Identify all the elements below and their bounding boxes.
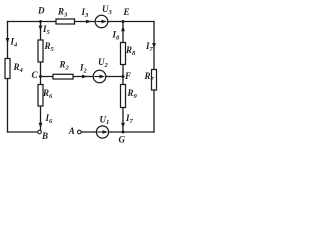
node G xyxy=(122,131,125,134)
node C xyxy=(39,75,42,78)
svg-text:I7: I7 xyxy=(145,41,154,53)
arrow of U2 xyxy=(94,75,105,79)
wire bottom A-U1-G rail xyxy=(81,131,154,133)
svg-text:I3: I3 xyxy=(81,7,90,19)
svg-text:R5: R5 xyxy=(44,41,55,53)
svg-text:I7: I7 xyxy=(125,113,134,125)
current arrow I5 xyxy=(39,26,43,32)
wire bottom-left to B xyxy=(8,131,38,133)
resistor R5 xyxy=(38,40,43,62)
svg-text:I5: I5 xyxy=(42,24,51,36)
svg-text:R9: R9 xyxy=(127,88,138,100)
current arrow I7 right xyxy=(152,43,156,49)
svg-text:R4: R4 xyxy=(13,62,24,74)
svg-text:I8: I8 xyxy=(112,30,121,42)
svg-text:U2: U2 xyxy=(98,57,109,69)
terminal A xyxy=(78,130,82,134)
source U1 xyxy=(96,126,108,138)
node E xyxy=(122,20,125,23)
svg-text:B: B xyxy=(41,131,48,141)
svg-text:I4: I4 xyxy=(10,37,19,49)
svg-text:I2: I2 xyxy=(79,63,88,75)
svg-text:R8: R8 xyxy=(125,45,136,57)
current arrow I8 xyxy=(121,26,125,32)
arrow of U3 xyxy=(96,20,107,24)
wire middle column D-C-B xyxy=(40,22,42,131)
resistor R6 xyxy=(38,85,43,107)
svg-text:F: F xyxy=(124,71,131,81)
wire right column E-F-G xyxy=(122,22,124,133)
wire left branch xyxy=(7,22,9,133)
source U3 xyxy=(95,15,108,28)
svg-text:G: G xyxy=(119,135,126,145)
node F xyxy=(122,75,125,78)
resistor R3 xyxy=(56,19,75,24)
arrow of U1 xyxy=(97,130,108,134)
resistor R4 xyxy=(5,59,10,79)
resistor R2 xyxy=(53,74,73,79)
resistor R8 xyxy=(121,43,126,65)
terminal B xyxy=(38,130,42,134)
svg-text:C: C xyxy=(32,70,39,80)
current arrow I2 xyxy=(82,75,88,79)
node D xyxy=(39,20,42,23)
svg-text:R2: R2 xyxy=(59,60,70,72)
svg-text:A: A xyxy=(68,126,75,136)
svg-text:R6: R6 xyxy=(42,88,53,100)
source U2 xyxy=(93,70,106,83)
resistor R9 xyxy=(121,85,126,108)
resistor R7 xyxy=(152,70,157,91)
current arrow I3 xyxy=(86,20,92,24)
current arrow I6 xyxy=(39,123,43,129)
wire right branch xyxy=(153,22,155,133)
svg-text:U1: U1 xyxy=(100,114,110,126)
wire top D-E rail xyxy=(8,21,155,23)
svg-text:I6: I6 xyxy=(45,113,54,125)
current arrow I7 at G xyxy=(121,123,125,129)
svg-text:U3: U3 xyxy=(102,4,113,16)
svg-text:E: E xyxy=(123,7,130,17)
current arrow I4 xyxy=(6,38,10,44)
svg-text:R3: R3 xyxy=(57,7,68,19)
wire middle C-F rail xyxy=(41,76,124,78)
svg-text:D: D xyxy=(37,6,45,16)
